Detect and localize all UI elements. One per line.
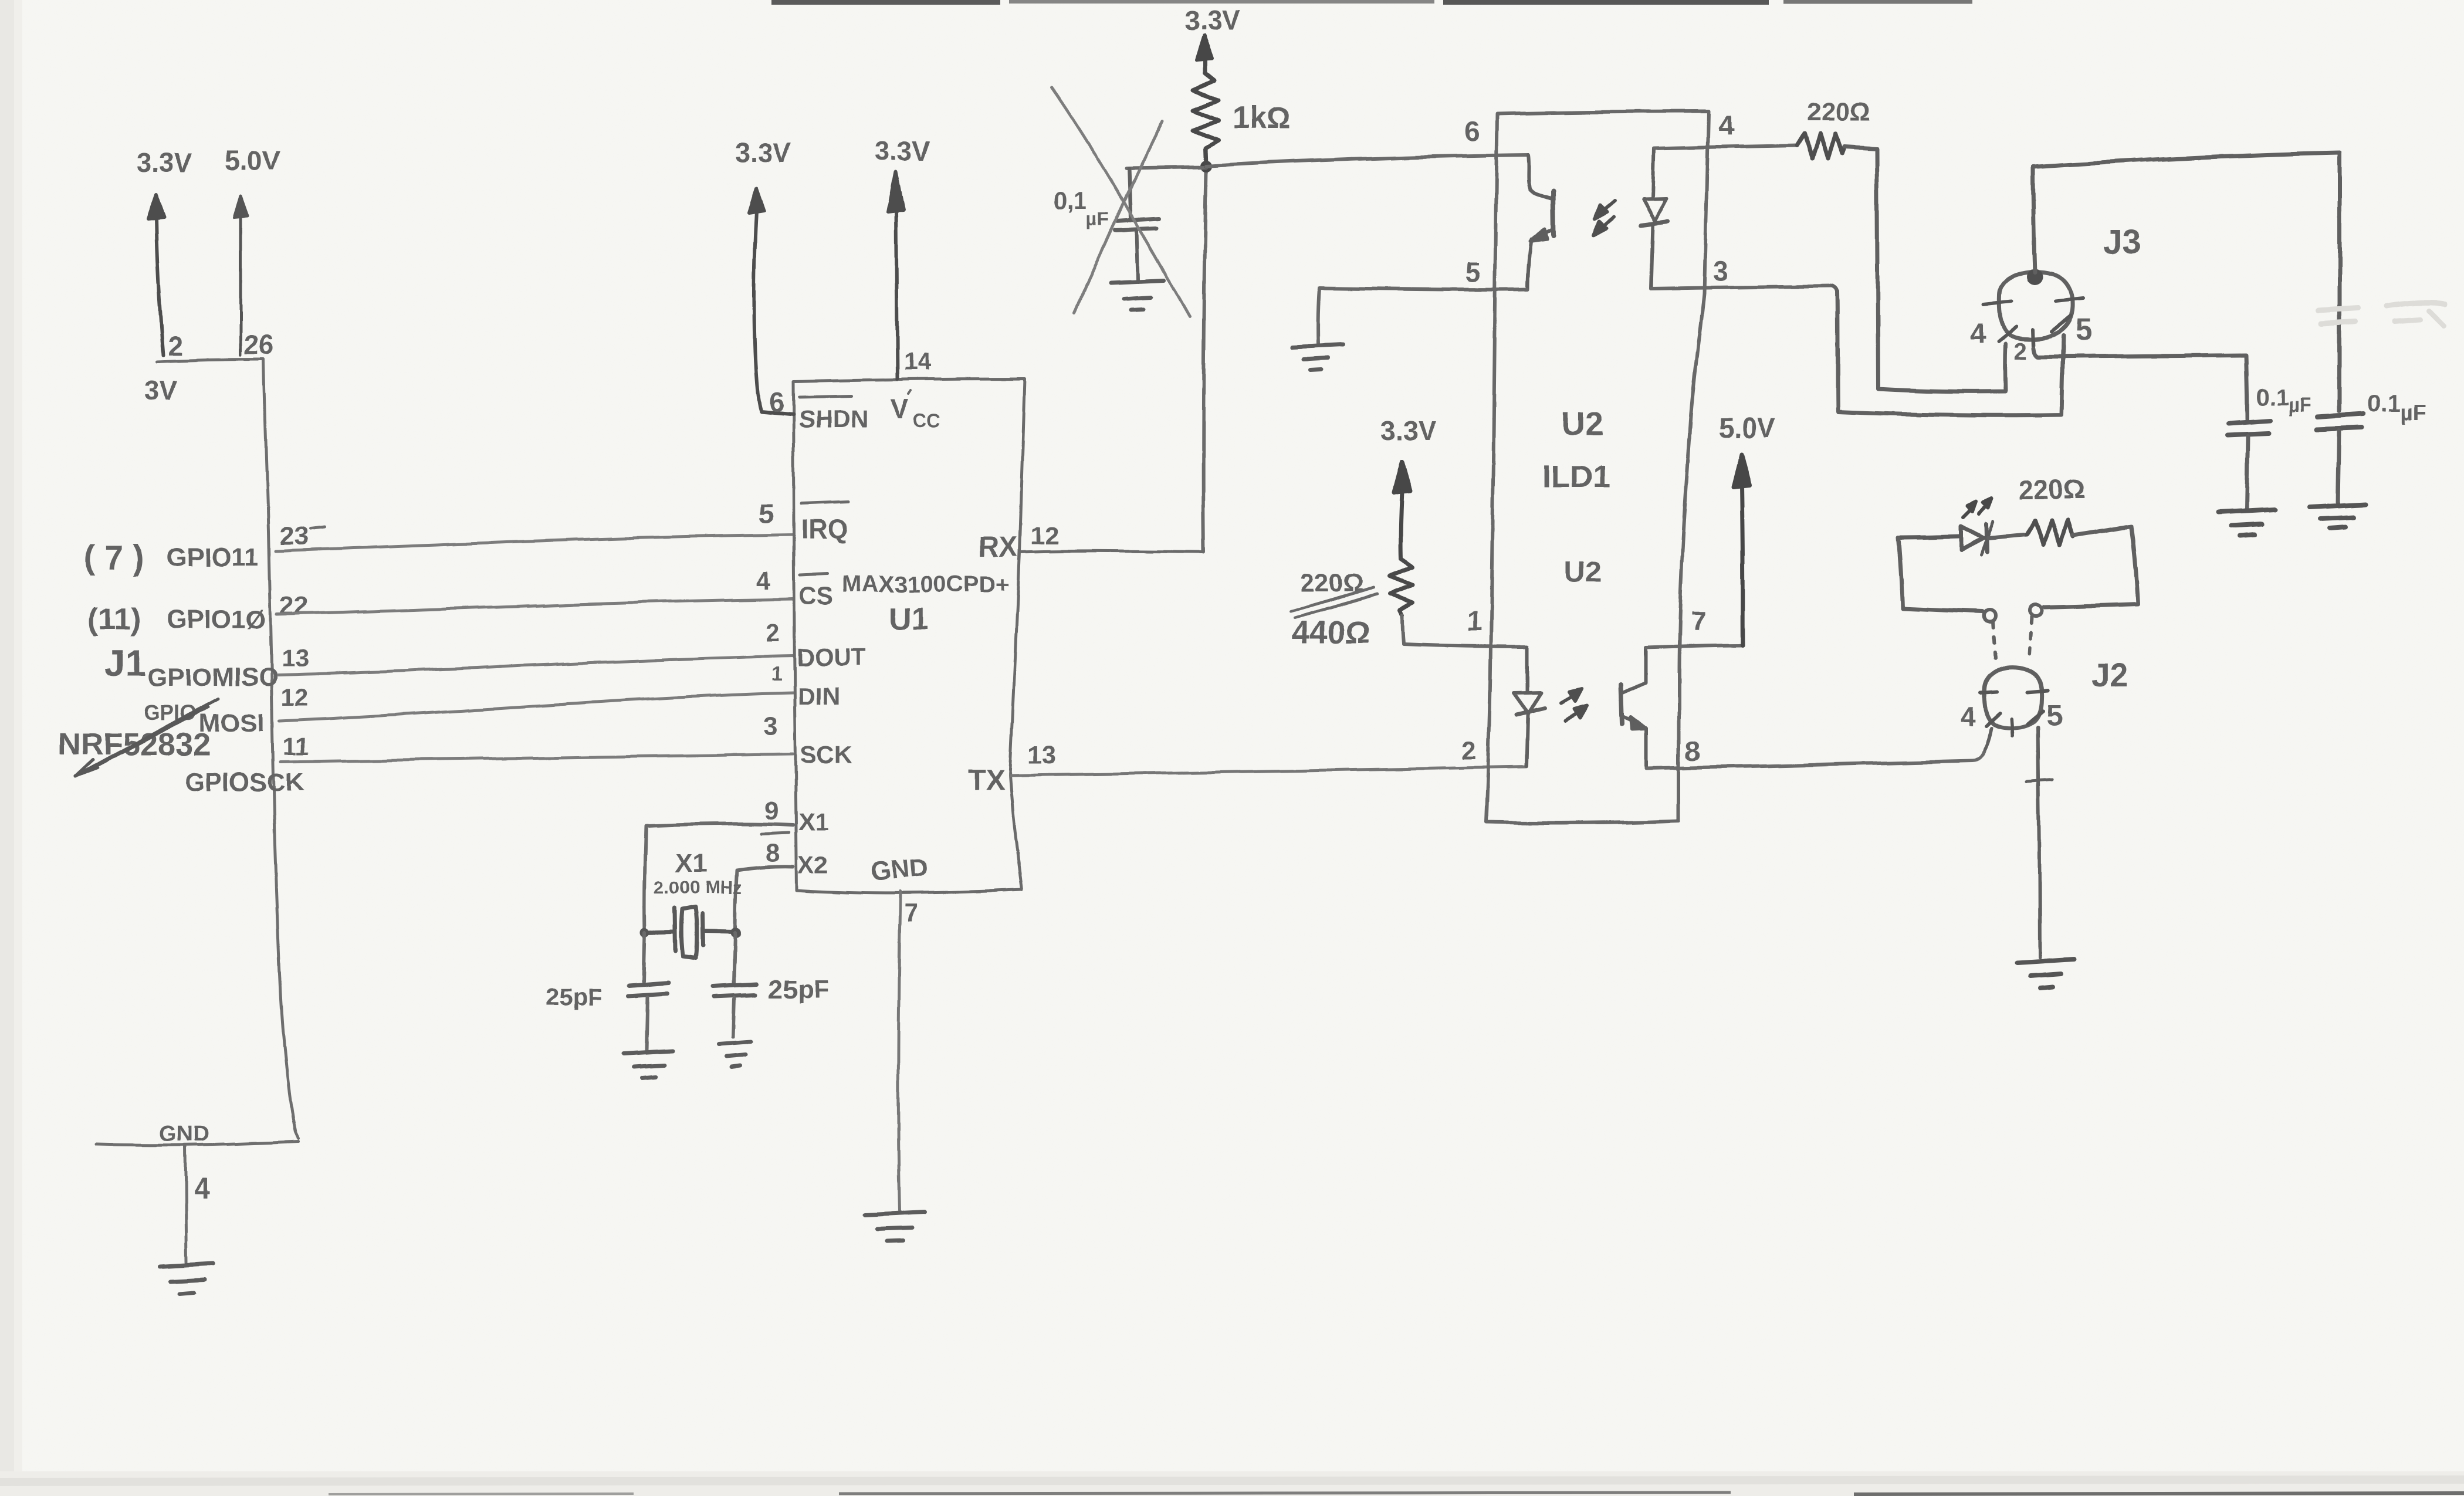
- power arrow 3.3V to U1 VCC pin 14: [888, 172, 903, 379]
- wire: U1 RX pin 12 to resistor junction: [1020, 551, 1204, 552]
- ground symbol (U1 GND): [866, 1212, 925, 1241]
- wire: U1 X2 pin 8 to crystal right node: [735, 867, 793, 932]
- svg-text:GPIOMISO: GPIOMISO: [148, 663, 278, 692]
- wire: 220R to loop right side: [2073, 526, 2131, 536]
- svg-text:V: V: [891, 394, 909, 424]
- ground symbol (crossed cap): [1111, 280, 1164, 310]
- ground symbol (right 0.1uF): [2310, 505, 2365, 529]
- ground symbol (right 25pF cap): [719, 1042, 752, 1067]
- svg-text:13: 13: [1027, 740, 1056, 769]
- wire: J2 loop right side: [2044, 526, 2138, 607]
- svg-text:2: 2: [168, 331, 183, 361]
- svg-text:SCK: SCK: [800, 741, 852, 769]
- svg-text:13: 13: [281, 644, 309, 672]
- svg-text:3.3V: 3.3V: [735, 137, 791, 168]
- svg-text:X1: X1: [675, 849, 707, 878]
- svg-text:CC: CC: [913, 409, 940, 431]
- svg-text:220Ω: 220Ω: [1807, 97, 1871, 126]
- optocoupler U2 ILD1 body: [1486, 111, 1708, 823]
- wire: J3 pin 2 to 0.1uF cap: [2034, 348, 2247, 419]
- power arrow 5.0V on J1 pin 26: [234, 196, 248, 356]
- connector J3 circle: [1999, 272, 2073, 339]
- resistor R 220Ohm (LED loop): [2027, 520, 2073, 545]
- svg-text:DIN: DIN: [798, 682, 840, 710]
- paper bottom edge shading: [0, 1471, 2464, 1496]
- wire: U2 pin 7 to 5.0V arrow: [1646, 645, 1742, 648]
- crystal X1 symbol: [645, 907, 735, 958]
- wire: J2 pin 5 to ground: [2038, 727, 2040, 957]
- svg-text:8: 8: [1685, 736, 1701, 767]
- svg-text:6: 6: [1464, 116, 1480, 147]
- svg-text:12: 12: [1030, 521, 1059, 550]
- svg-text:U2: U2: [1562, 405, 1604, 442]
- wire: J2 loop left side: [1898, 537, 1982, 612]
- svg-text:µF: µF: [2401, 401, 2426, 425]
- IC U1 MAX3100CPD+ body: [793, 379, 1025, 893]
- dashed wire: left terminal to J2: [1993, 622, 1995, 658]
- wire: LED to 220R: [1988, 534, 2027, 538]
- svg-text:2: 2: [2015, 339, 2028, 364]
- svg-text:X2: X2: [798, 851, 828, 879]
- svg-text:IRQ: IRQ: [801, 514, 849, 544]
- svg-text:23: 23: [280, 522, 309, 550]
- wire: RX vertical riser to 1k junction: [1203, 171, 1206, 552]
- svg-text:(11): (11): [88, 603, 141, 637]
- node dot on J3 top: [2026, 269, 2043, 285]
- wire: J1 pin 13 to U1 DOUT: [278, 656, 793, 675]
- wire: 220R staircase to J3 pin 4: [1844, 147, 2006, 391]
- svg-text:3.3V: 3.3V: [1381, 415, 1437, 446]
- svg-text:GPIO11: GPIO11: [167, 543, 259, 571]
- wire: U1 GND pin 7 down to ground: [898, 891, 900, 1211]
- svg-text:4: 4: [194, 1172, 210, 1204]
- wire: J3 top pin up to loop: [2033, 167, 2035, 272]
- ground symbol (J1): [160, 1264, 212, 1294]
- svg-text:2.000 MHz: 2.000 MHz: [654, 877, 742, 898]
- svg-text:4: 4: [1970, 319, 1986, 350]
- svg-text:U1: U1: [889, 602, 928, 636]
- wire: J1 pin 11 to U1 SCK: [280, 754, 793, 761]
- svg-text:12: 12: [281, 683, 309, 711]
- svg-text:2: 2: [765, 618, 779, 647]
- svg-text:25pF: 25pF: [546, 983, 603, 1011]
- phototransistor Q (U2 bottom half, pins 7-8): [1621, 648, 1646, 769]
- svg-text:3V: 3V: [144, 375, 178, 405]
- strikethrough arrow over NRF52832: [76, 699, 218, 776]
- node junction at 1k resistor bottom: [1200, 160, 1212, 172]
- scanner edge artifact bottom: [839, 1492, 1731, 1494]
- ground symbol (J2 pin 5): [2017, 959, 2074, 989]
- wire: U1 X1 pin 9 to crystal left node: [645, 824, 793, 931]
- power arrow 3.3V to 440R: [1394, 462, 1410, 559]
- svg-text:6: 6: [769, 387, 784, 417]
- svg-text:µF: µF: [1087, 208, 1109, 229]
- svg-text:3.3V: 3.3V: [875, 136, 930, 166]
- LED (U2 bottom half, pins 1-2): [1514, 647, 1545, 766]
- svg-text:ILD1: ILD1: [1542, 459, 1610, 494]
- svg-text:4: 4: [1718, 110, 1734, 141]
- wire: U2 pin 3 staircase to J3 pin 5: [1833, 286, 2063, 415]
- svg-text:26: 26: [244, 330, 274, 360]
- wire: J2 pin 4 down to TX hook: [1985, 728, 1991, 750]
- svg-text:1kΩ: 1kΩ: [1232, 101, 1291, 135]
- resistor R 1kOhm: [1193, 57, 1219, 166]
- svg-text:3.3V: 3.3V: [137, 147, 192, 178]
- wire: J1 pin 22 to U1 CS: [277, 599, 793, 614]
- svg-text:3: 3: [763, 712, 777, 741]
- svg-text:22: 22: [280, 592, 309, 621]
- paper left edge shading: [0, 0, 14, 1496]
- svg-text:5: 5: [2075, 313, 2092, 347]
- svg-text:5.0V: 5.0V: [1718, 413, 1776, 444]
- node: crystal right junction: [730, 928, 741, 938]
- capacitor 0.1uF (left, on J3 pin 2): [2227, 421, 2270, 435]
- svg-text:25pF: 25pF: [769, 975, 829, 1004]
- svg-text:DOUT: DOUT: [797, 644, 867, 671]
- svg-text:RX: RX: [979, 532, 1018, 563]
- svg-text:0.1: 0.1: [2256, 384, 2289, 410]
- wire: J3 loop top and right side to 0.1uF cap: [2033, 153, 2340, 411]
- wire: junction to crossed-out cap: [1126, 167, 1206, 168]
- scanner edge artifact top: [771, 0, 1000, 5]
- svg-text:J1: J1: [104, 642, 146, 684]
- J3 tick marks: [1984, 299, 2083, 348]
- svg-text:1: 1: [771, 663, 783, 685]
- svg-text:U2: U2: [1564, 556, 1602, 588]
- svg-text:5.0V: 5.0V: [225, 145, 280, 175]
- svg-text:5: 5: [1465, 257, 1481, 288]
- svg-text:GND: GND: [870, 853, 930, 886]
- svg-text:1: 1: [1467, 606, 1482, 637]
- wire: U2 pin 5 to ground: [1318, 288, 1528, 344]
- svg-text:7: 7: [904, 898, 918, 927]
- strike lines through 220Ohm: [1291, 587, 1377, 618]
- wire: U2 pin 3 toward J3 (start): [1651, 286, 1833, 289]
- svg-text:GPIOSCK: GPIOSCK: [185, 768, 304, 797]
- connector J2 circle: [1984, 668, 2042, 729]
- svg-text:440Ω: 440Ω: [1292, 615, 1370, 650]
- wire: J1 bus bottom horizontal to GND branch: [96, 1142, 299, 1145]
- wire: GND stub of J1 pin 4: [185, 1146, 187, 1263]
- svg-text:CS: CS: [799, 581, 833, 609]
- wire: U2 pin 4 to 220R resistor: [1654, 145, 1798, 148]
- capacitor 0.1uF (crossed out): [1115, 168, 1159, 280]
- ground symbol (left 0.1uF): [2219, 509, 2275, 536]
- svg-text:GPIO1Ø: GPIO1Ø: [167, 605, 266, 634]
- svg-text:4: 4: [756, 566, 770, 595]
- svg-text:( 7 ): ( 7 ): [84, 539, 144, 577]
- svg-text:5: 5: [2046, 699, 2063, 732]
- wire: U2 pin 8 to J2 pin 4 (with end hook): [1646, 750, 1985, 769]
- svg-text:µF: µF: [2288, 394, 2311, 417]
- phototransistor Q (U2 top half, pins 6-5): [1528, 155, 1554, 289]
- faint erased cap marks: [2319, 303, 2445, 326]
- svg-text:3.3V: 3.3V: [1184, 5, 1240, 35]
- svg-text:0,1: 0,1: [1053, 187, 1087, 214]
- svg-text:GND: GND: [160, 1122, 209, 1146]
- svg-text:3: 3: [1713, 256, 1729, 287]
- svg-text:TX: TX: [969, 765, 1004, 796]
- wire: J1 pins 2-26 top bar: [157, 360, 263, 362]
- LED indicator (J2 loop): [1898, 521, 1993, 555]
- cross-out X strokes over 0.1uF cap: [1051, 87, 1190, 317]
- light arrows out of LED: [1562, 689, 1588, 721]
- open terminal (left): [1984, 610, 1996, 622]
- svg-text:11: 11: [283, 732, 309, 760]
- svg-text:9: 9: [764, 796, 779, 825]
- wire: U1 TX pin 13 to U2 pin 2: [1010, 767, 1527, 776]
- svg-text:2: 2: [1462, 736, 1476, 765]
- capacitor 25pF (left): [644, 932, 645, 981]
- svg-text:X1: X1: [798, 808, 828, 835]
- svg-text:7: 7: [1691, 605, 1706, 636]
- svg-text:8: 8: [766, 839, 780, 868]
- light arrows from LED: [1964, 499, 1992, 517]
- power arrow 5.0V on U2 pin 7: [1733, 453, 1749, 645]
- svg-text:J2: J2: [2091, 656, 2128, 693]
- dashed wire: right terminal to J2: [2029, 618, 2032, 655]
- ground symbol (U2 pin 5): [1292, 344, 1344, 370]
- J2 tick marks: [1980, 691, 2048, 736]
- open terminal (right): [2030, 605, 2042, 617]
- power arrow 3.3V above 1k resistor: [1196, 35, 1212, 60]
- ground symbol (left 25pF cap): [623, 1051, 672, 1078]
- wire: junction to U2 pin 6: [1206, 155, 1528, 166]
- svg-text:5: 5: [759, 498, 774, 529]
- resistor R 440Ohm (relabeled from 220): [1390, 559, 1413, 615]
- capacitor 25pF (right): [734, 933, 735, 983]
- light arrows into phototransistor: [1593, 201, 1615, 235]
- LED (U2 top half, pins 4-3): [1641, 148, 1668, 289]
- wire: 440R to U2 pin 1: [1403, 644, 1527, 647]
- wire: J1 pin 23 to U1 IRQ: [276, 534, 793, 551]
- wire: J1 pin 12 to U1 DIN: [279, 693, 793, 721]
- svg-text:GPIO: GPIO: [144, 700, 197, 725]
- svg-text:MAX3100CPD+: MAX3100CPD+: [842, 571, 1010, 597]
- svg-text:0.1: 0.1: [2367, 390, 2401, 417]
- power arrow 3.3V on J1 pin 2: [148, 195, 164, 356]
- power arrow 3.3V to U1 SHDN pin 6: [749, 189, 793, 414]
- svg-text:220Ω: 220Ω: [2018, 474, 2085, 505]
- svg-text:J3: J3: [2103, 223, 2141, 261]
- svg-text:SHDN: SHDN: [798, 405, 868, 433]
- node: crystal left junction: [640, 928, 649, 937]
- capacitor 0.1uF (right, on J3 loop): [2316, 414, 2363, 429]
- resistor R 220Ohm (U2 pin 4 to J3): [1798, 133, 1844, 158]
- svg-text:14: 14: [903, 348, 931, 375]
- wire: J1 connector vertical bus: [264, 360, 299, 1139]
- svg-text:4: 4: [1960, 701, 1975, 732]
